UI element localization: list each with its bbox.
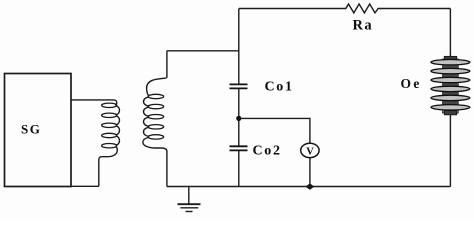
svg-text:V: V: [306, 146, 314, 157]
svg-text:SG: SG: [21, 122, 41, 137]
test object Oe: top cap: [444, 56, 456, 60]
wire: SG output to transformer primary: [71, 100, 117, 105]
box SG (signal generator): [5, 74, 72, 187]
ground symbol: [188, 187, 190, 204]
svg-text:Co1: Co1: [265, 80, 294, 95]
test object Oe: core column: [443, 59, 459, 113]
test object Oe: sheds: [431, 60, 470, 65]
wire: right side down to test object: [449, 9, 451, 58]
wire: secondary top to main bus: [167, 50, 239, 52]
inductor L1 primary winding connecting arcs: [116, 106, 120, 145]
wire: secondary winding top riser: [147, 51, 167, 96]
svg-text:Ra: Ra: [353, 18, 374, 34]
wire: Oe bottom to bottom rail: [449, 115, 451, 187]
svg-text:Co2: Co2: [253, 144, 282, 159]
capacitor Co1: [230, 84, 248, 88]
wire: junction to voltmeter: [239, 118, 310, 143]
wire: secondary winding bottom descender: [143, 138, 167, 187]
inductor L2 secondary winding connecting arcs: [144, 97, 150, 136]
voltmeter V (meter symbol): [301, 143, 319, 157]
wire: main bus vertical (with gaps for Co1, Co2): [238, 9, 240, 187]
inductor L1 transformer primary winding: [102, 103, 117, 107]
inductor L2 transformer secondary winding: [148, 94, 164, 98]
wire: SG bottom to primary return: [71, 185, 99, 187]
wire: voltmeter to bottom rail: [309, 158, 311, 187]
capacitor Co2: [230, 146, 248, 150]
svg-text:Oe: Oe: [401, 76, 422, 91]
node: junction dot between Co1 and Co2: [236, 116, 241, 121]
test object Oe: bottom cap: [444, 111, 456, 115]
wire: bottom rail: [167, 186, 451, 188]
resistor Ra with top rail wire: [239, 4, 451, 13]
node: diamond junction at voltmeter ground: [305, 183, 314, 189]
wire: primary winding return descender: [99, 146, 118, 186]
